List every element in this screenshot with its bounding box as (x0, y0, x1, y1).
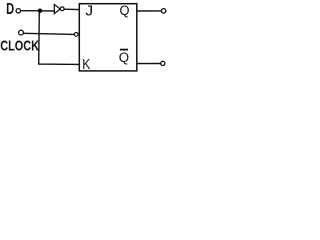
clock input bubble (74, 33, 78, 37)
wire: inverter bubble to J input (64, 8, 79, 10)
wire: junction to inverter input (40, 10, 54, 12)
input terminal D (16, 9, 20, 13)
svg-text:Q: Q (119, 2, 129, 18)
svg-text:D: D (6, 0, 14, 17)
junction node dot (38, 9, 43, 14)
svg-text:CLOCK: CLOCK (0, 37, 39, 54)
svg-text:J: J (84, 3, 94, 20)
overbar of Q-bar (120, 49, 128, 51)
wire: CLOCK terminal to clock bubble (23, 33, 74, 34)
inverter U2 output bubble (60, 7, 64, 11)
wire: junction down and right to K input (39, 12, 80, 65)
wire: Q-bar output (137, 63, 161, 65)
flip-flop U1 body (79, 4, 137, 71)
svg-text:K: K (82, 56, 90, 72)
inverter U2 triangle (54, 4, 60, 13)
wire: Q output (137, 10, 162, 12)
wire: D terminal to junction (21, 10, 41, 12)
output terminal Q-bar (161, 61, 165, 65)
input terminal CLOCK (19, 30, 24, 35)
svg-text:Q: Q (119, 50, 129, 65)
output terminal Q (161, 9, 165, 13)
